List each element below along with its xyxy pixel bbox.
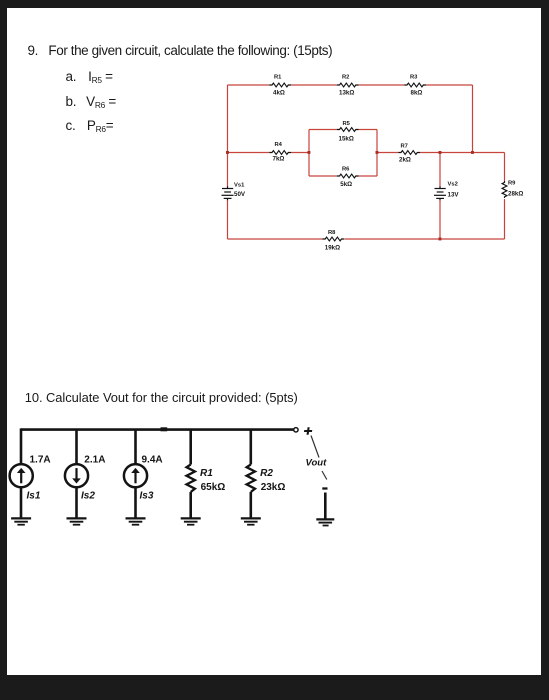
- battery Vs2: [434, 186, 446, 200]
- wire top between R2 R3: [359, 84, 405, 86]
- svg-text:5kΩ: 5kΩ: [340, 181, 352, 188]
- current source Is2 circle+arrow (down): [65, 464, 88, 487]
- lead line lower: [322, 471, 327, 480]
- svg-text:65kΩ: 65kΩ: [201, 482, 226, 493]
- wire right vertical from top corner down to middle: [472, 85, 474, 153]
- wire Is1 drop: [20, 428, 23, 463]
- current source Is3 circle+arrow: [124, 464, 147, 487]
- resistor R4 zigzag: [269, 151, 291, 155]
- wire top-left segment: [228, 84, 270, 86]
- resistor R8 zigzag: [323, 237, 345, 241]
- resistor R1 vertical zigzag: [187, 465, 195, 492]
- wire R1 drop: [189, 430, 192, 465]
- item b VR6: [66, 94, 117, 110]
- R9 branch lower wire: [504, 199, 506, 239]
- wire top between R1 R2: [291, 84, 337, 86]
- svg-text:50V: 50V: [234, 191, 246, 198]
- svg-text:9.4A: 9.4A: [142, 455, 163, 466]
- resistor R1 zigzag: [269, 83, 291, 87]
- ground Is2: [67, 518, 87, 524]
- svg-text:R5: R5: [343, 121, 351, 127]
- box top wire to R5: [309, 129, 337, 131]
- ground Is3: [126, 518, 146, 524]
- box right edge: [376, 130, 378, 177]
- R9 branch upper wire: [504, 153, 506, 182]
- wire R7 to Vs2 node and R9 corner: [420, 152, 505, 154]
- svg-text:Vs1: Vs1: [234, 183, 245, 189]
- wire Is3 to ground: [134, 488, 137, 518]
- svg-text:8kΩ: 8kΩ: [411, 89, 423, 96]
- wire R2 to ground: [250, 492, 253, 518]
- svg-text:R2: R2: [342, 74, 349, 80]
- wire left vertical top (down to Vs1): [227, 85, 229, 187]
- resistor R2 vertical zigzag: [247, 465, 255, 492]
- svg-text:4kΩ: 4kΩ: [273, 89, 285, 96]
- svg-text:R2: R2: [260, 468, 273, 479]
- box bottom wire to R6: [309, 175, 337, 177]
- ground R2: [241, 518, 261, 524]
- wire Is2 to ground: [75, 488, 78, 518]
- current source Is1 circle+arrow: [10, 464, 33, 487]
- minus sign: [322, 487, 327, 489]
- svg-text:13V: 13V: [448, 192, 460, 199]
- wire R2 drop: [250, 430, 253, 465]
- node junction box-left: [308, 151, 311, 154]
- bottom wire right of R8: [345, 238, 505, 240]
- lead line upper: [311, 436, 319, 458]
- svg-text:R6: R6: [342, 166, 350, 172]
- plus sign: [304, 427, 313, 434]
- svg-text:R1: R1: [200, 468, 213, 479]
- wire Is2 drop: [75, 430, 78, 464]
- svg-text:23kΩ: 23kΩ: [261, 482, 286, 493]
- wire R1 to ground: [189, 492, 192, 518]
- svg-text:R1: R1: [274, 74, 282, 80]
- node junction Vs2-top: [439, 151, 442, 154]
- svg-text:Is1: Is1: [27, 491, 41, 502]
- svg-text:Vout: Vout: [306, 458, 328, 469]
- node junction left-middle: [226, 151, 229, 154]
- labels circuit 10: [27, 455, 328, 502]
- R5/R6 box left edge: [308, 130, 310, 177]
- svg-text:7kΩ: 7kΩ: [273, 155, 285, 162]
- item a IR5: [66, 69, 113, 85]
- bottom wire left of R8: [228, 238, 323, 240]
- resistor R6 zigzag: [337, 174, 359, 178]
- svg-text:R4: R4: [275, 142, 283, 148]
- box bottom wire after R6: [359, 175, 378, 177]
- svg-text:2.1A: 2.1A: [84, 455, 105, 466]
- battery Vs1: [222, 186, 234, 200]
- wire Is1 to ground: [20, 488, 23, 518]
- resistor R7 zigzag: [398, 151, 420, 155]
- wire box right to R7: [377, 152, 398, 154]
- Vs2 branch lower wire: [439, 200, 441, 239]
- resistor R9 vertical zigzag: [502, 181, 507, 198]
- junction bump on top wire: [161, 427, 168, 431]
- wire top right of R3 to corner: [426, 84, 473, 86]
- svg-text:Vs2: Vs2: [448, 182, 458, 188]
- resistor R3 zigzag: [404, 83, 426, 87]
- ground Vout: [316, 519, 334, 525]
- right black bar: [541, 0, 549, 700]
- ground Is1: [11, 518, 31, 524]
- svg-text:19kΩ: 19kΩ: [325, 244, 340, 251]
- node junction right-corner-middle: [471, 151, 474, 154]
- bottom black bar: [0, 675, 549, 700]
- resistor R2 zigzag: [337, 83, 359, 87]
- left black bar: [0, 0, 7, 700]
- output terminal circle: [294, 428, 298, 432]
- svg-text:R8: R8: [328, 230, 336, 236]
- problem 9 title: [28, 43, 333, 58]
- wire minus to ground: [324, 493, 327, 519]
- svg-text:R9: R9: [508, 181, 516, 187]
- node junction Vs2-bottom: [439, 238, 442, 241]
- svg-text:13kΩ: 13kΩ: [339, 90, 354, 97]
- problem 10 title: [25, 390, 298, 405]
- wire Is3 drop: [134, 430, 137, 464]
- ground R1: [181, 518, 201, 524]
- wire left vertical bottom (Vs1 to bottom wire): [227, 200, 229, 239]
- wire middle left to R4: [228, 152, 270, 154]
- resistor R5 zigzag: [337, 128, 359, 132]
- wire top horizontal: [21, 428, 294, 431]
- svg-text:28kΩ: 28kΩ: [508, 191, 523, 198]
- top black bar: [0, 0, 549, 8]
- svg-text:R7: R7: [401, 143, 408, 149]
- Vs2 branch upper wire: [439, 153, 441, 187]
- node junction box-right: [376, 151, 379, 154]
- svg-text:Is2: Is2: [81, 491, 95, 502]
- svg-text:R3: R3: [410, 74, 418, 80]
- svg-text:15kΩ: 15kΩ: [339, 135, 354, 142]
- box top wire after R5: [359, 129, 378, 131]
- item c PR6: [66, 118, 114, 134]
- svg-text:1.7A: 1.7A: [30, 455, 51, 466]
- wire R4 to box left: [291, 152, 309, 154]
- svg-text:Is3: Is3: [140, 491, 154, 502]
- svg-text:2kΩ: 2kΩ: [399, 157, 411, 164]
